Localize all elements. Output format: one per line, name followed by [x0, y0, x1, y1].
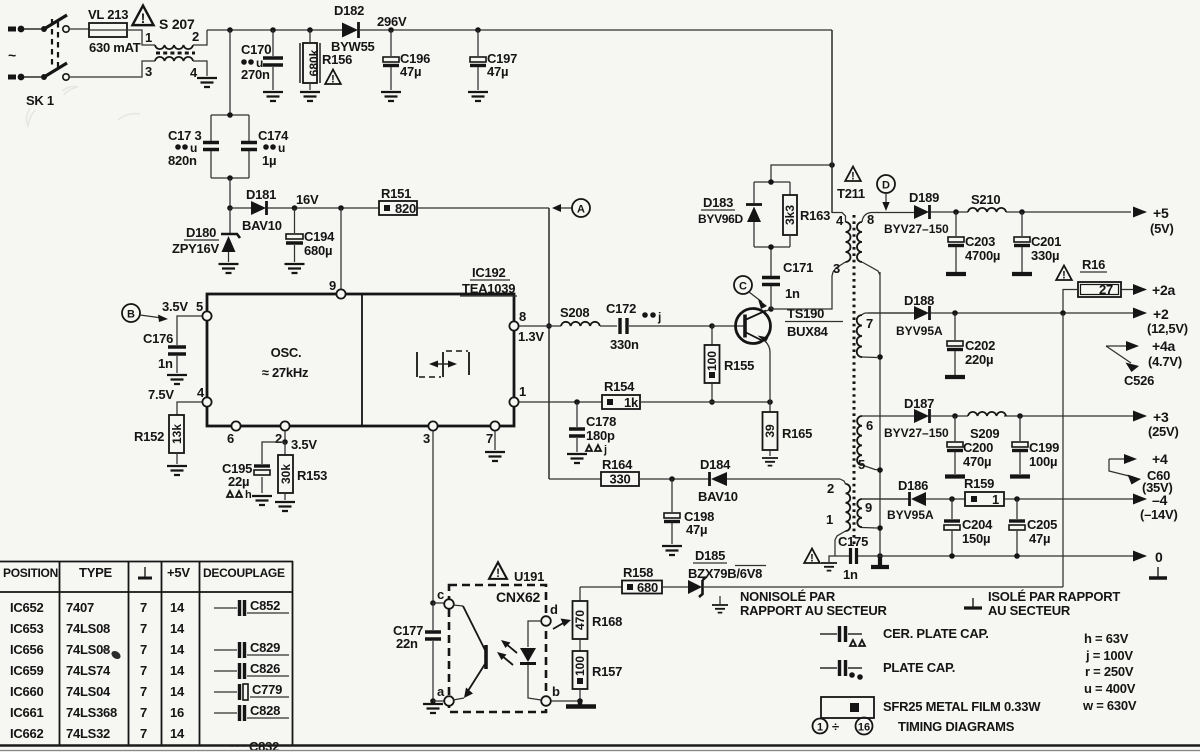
ground (nonisole) [712, 596, 728, 613]
svg-text:74LS74: 74LS74 [66, 663, 111, 678]
svg-text:BYV27–150: BYV27–150 [884, 426, 949, 440]
svg-text:TYPE: TYPE [79, 565, 113, 580]
isolated ground legend symbol [964, 598, 982, 608]
node junction 16V row left [227, 205, 233, 211]
pin 7 [486, 421, 500, 450]
svg-text:NONISOLÉ PAR: NONISOLÉ PAR [740, 589, 836, 604]
capacitor C204 [944, 499, 960, 556]
wire +2 row [868, 310, 1133, 316]
svg-text:D184: D184 [700, 457, 731, 472]
mains terminal L2 [8, 74, 24, 81]
svg-text:14: 14 [170, 663, 185, 678]
node junction S208 tap [546, 323, 552, 329]
pin 5 [196, 299, 212, 321]
svg-text:1.3V: 1.3V [518, 329, 544, 344]
svg-text:≈ 27kHz: ≈ 27kHz [262, 365, 309, 380]
resistor R154 [602, 395, 640, 410]
svg-text:1: 1 [817, 722, 823, 734]
svg-text:1n: 1n [785, 286, 800, 301]
svg-text:j = 100V: j = 100V [1085, 648, 1133, 663]
svg-text:3.5V: 3.5V [162, 299, 188, 314]
ground (C195) [252, 496, 272, 505]
svg-text:4: 4 [836, 213, 844, 228]
table row IC653 [10, 621, 185, 636]
capacitor C199 [1010, 416, 1030, 477]
svg-text:680: 680 [637, 580, 658, 595]
svg-text:PLATE CAP.: PLATE CAP. [883, 660, 955, 675]
output arrow +2 [1133, 306, 1188, 336]
svg-text:22n: 22n [396, 636, 418, 651]
label R16 [1080, 257, 1107, 272]
svg-text:(25V): (25V) [1148, 424, 1179, 439]
svg-text:IC659: IC659 [10, 663, 43, 678]
svg-text:2: 2 [275, 431, 282, 446]
svg-text:1n: 1n [843, 567, 858, 582]
svg-text:R159: R159 [964, 476, 994, 491]
svg-text:R16: R16 [1082, 257, 1105, 272]
svg-text:C201: C201 [1031, 234, 1061, 249]
svg-text:(4.7V): (4.7V) [1148, 354, 1182, 369]
svg-text:C200: C200 [963, 440, 993, 455]
svg-text:D188: D188 [904, 293, 934, 308]
inductor S209 [968, 412, 1006, 416]
capacitor C195 [254, 442, 285, 493]
T211 secondary winding 9 [857, 499, 909, 528]
svg-text:7: 7 [140, 642, 147, 657]
svg-text:R156: R156 [322, 52, 352, 67]
resistor R159 [965, 492, 1004, 507]
ground (C196) [381, 92, 401, 101]
svg-text:+2a: +2a [1152, 282, 1176, 298]
T211 core [853, 215, 856, 545]
svg-text:R164: R164 [602, 457, 633, 472]
node junction C198 [669, 476, 675, 482]
diode D184 [710, 472, 728, 486]
svg-text:6: 6 [866, 418, 873, 433]
table row IC659 [10, 663, 185, 678]
capacitor C201 [1012, 212, 1032, 274]
IC op U192 box [207, 294, 514, 426]
diode D187 [914, 409, 930, 423]
sfr25 legend symbol [821, 697, 874, 718]
svg-text:D187: D187 [904, 396, 934, 411]
wire fuse to S207 pin1 [127, 30, 155, 45]
svg-text:R157: R157 [592, 664, 622, 679]
node junction R155 top [709, 323, 715, 329]
ground (pin 7) [485, 452, 505, 461]
svg-text:h: h [245, 489, 252, 501]
pencil artifact near SK1 [26, 87, 140, 127]
opto pin c [437, 587, 454, 609]
capacitor C200 [945, 416, 965, 477]
svg-text:7: 7 [140, 684, 147, 699]
IC decoupling table frame [0, 561, 293, 745]
svg-text:D181: D181 [246, 187, 276, 202]
diode D188 [914, 306, 930, 320]
svg-text:7: 7 [140, 663, 147, 678]
svg-text:2: 2 [827, 481, 834, 496]
capacitor C172 [620, 318, 712, 334]
marking h (C195) [227, 489, 252, 501]
svg-text:47µ: 47µ [400, 64, 421, 79]
svg-text:IC662: IC662 [10, 726, 43, 741]
warning triangle (primary gnd) [804, 549, 820, 565]
capacitor C198 [664, 479, 680, 544]
modulator symbol [417, 351, 469, 377]
node junction emitter [767, 399, 773, 405]
marking u (C173) [175, 141, 197, 155]
label IC192 [470, 265, 510, 280]
svg-text:+4a: +4a [1152, 338, 1176, 354]
svg-text:C194: C194 [304, 229, 335, 244]
svg-text:820: 820 [395, 201, 416, 216]
ground (C176) [167, 375, 187, 384]
svg-text:u: u [278, 141, 285, 155]
T211 secondary winding 6-5 [857, 416, 905, 470]
svg-text:14: 14 [170, 642, 185, 657]
svg-text:h = 63V: h = 63V [1084, 631, 1129, 646]
svg-text:B: B [127, 309, 135, 321]
svg-text:7: 7 [140, 621, 147, 636]
svg-text:7: 7 [140, 726, 147, 741]
diode D182 [342, 22, 359, 38]
output arrow +5 [1133, 205, 1174, 236]
svg-text:74LS08: 74LS08 [66, 621, 110, 636]
switch SK1 [41, 15, 69, 80]
wire secondary common rail [877, 272, 883, 559]
capacitor C177 [425, 603, 441, 701]
svg-text:3: 3 [833, 261, 840, 276]
svg-text:R154: R154 [604, 379, 635, 394]
wire branch down to C173/C174 [229, 30, 231, 115]
svg-text:CER. PLATE CAP.: CER. PLATE CAP. [883, 626, 989, 641]
svg-text:IC653: IC653 [10, 621, 43, 636]
zener D185 [688, 577, 706, 597]
svg-text:1n: 1n [158, 356, 173, 371]
resistor R155 [705, 326, 720, 402]
svg-text:IC660: IC660 [10, 684, 43, 699]
svg-text:330: 330 [610, 472, 631, 487]
svg-text:OSC.: OSC. [271, 345, 302, 360]
ground (D180) [219, 264, 239, 273]
svg-text:470µ: 470µ [963, 454, 991, 469]
svg-text:C779: C779 [252, 682, 282, 697]
label TS190 [785, 306, 843, 322]
capacitor C171 [762, 249, 780, 309]
svg-text:d: d [550, 602, 558, 617]
decoupling cap C826 [214, 661, 289, 679]
svg-text:BZX79B/6V8: BZX79B/6V8 [688, 566, 762, 581]
svg-text:7: 7 [140, 705, 147, 720]
wire +3 row [905, 413, 1133, 419]
wire D181 to R151 [268, 207, 379, 209]
svg-text:330n: 330n [610, 337, 639, 352]
resistor R151 [379, 201, 417, 216]
svg-text:7.5V: 7.5V [148, 387, 174, 402]
capacitor C170 [263, 30, 283, 90]
optocoupler U191 CNX62 dashed box [449, 585, 546, 712]
bottom page border [0, 746, 1200, 751]
wire pin5 to C176 [177, 316, 202, 345]
svg-text:BYV27–150: BYV27–150 [884, 222, 949, 236]
voltage code legend [1082, 631, 1137, 713]
table row IC661 [10, 705, 184, 720]
T211 secondary winding 8 [857, 213, 914, 276]
svg-text:DECOUPLAGE: DECOUPLAGE [203, 566, 285, 580]
svg-text:7: 7 [140, 600, 147, 615]
svg-text:220µ: 220µ [965, 352, 993, 367]
svg-text:C828: C828 [250, 703, 280, 718]
svg-text:+5V: +5V [167, 565, 190, 580]
svg-text:1: 1 [992, 492, 999, 507]
label D185 [693, 548, 727, 563]
node D [877, 175, 895, 211]
svg-text:POSITION: POSITION [3, 566, 58, 580]
svg-text:4700µ: 4700µ [965, 248, 1000, 263]
svg-text:D183: D183 [703, 195, 733, 210]
svg-text:BAV10: BAV10 [698, 489, 738, 504]
wire pin4 to R152 [177, 402, 202, 415]
svg-text:1: 1 [519, 384, 526, 399]
svg-text:c: c [437, 587, 444, 602]
warning triangle (fuse) [132, 6, 153, 27]
svg-text:C170: C170 [241, 42, 271, 57]
opto phototransistor [453, 605, 486, 700]
svg-text:T211: T211 [837, 186, 865, 201]
opto pin a [437, 684, 454, 706]
svg-text:C176: C176 [143, 331, 173, 346]
svg-text:IC656: IC656 [10, 642, 43, 657]
svg-text:14: 14 [170, 726, 185, 741]
opto pin d [541, 602, 558, 626]
svg-text:C199: C199 [1029, 440, 1059, 455]
resistor R168 [573, 587, 588, 651]
annotation +4a / C526 [1106, 338, 1182, 388]
transformer S207 secondary winding pins 3-4 [69, 57, 207, 77]
wire switch to fuse [69, 28, 89, 30]
capacitor C173 [203, 143, 219, 150]
svg-text:TEA1039: TEA1039 [462, 281, 515, 296]
svg-text:ZPY16V: ZPY16V [172, 241, 219, 256]
wire opto b to R157 bottom [551, 698, 583, 704]
label TEA1039 [460, 281, 517, 296]
svg-text:180p: 180p [586, 428, 615, 443]
transformer S207 primary winding pins 1-2 [155, 30, 207, 49]
svg-text:14: 14 [170, 621, 185, 636]
svg-text:SFR25 METAL FILM 0.33W: SFR25 METAL FILM 0.33W [883, 699, 1041, 714]
ground (C170) [263, 92, 283, 101]
svg-text:~: ~ [8, 47, 16, 63]
marking j (C172) [642, 310, 661, 324]
svg-text:27: 27 [1099, 282, 1113, 297]
wire R158 to D185 [662, 586, 688, 588]
svg-text:16: 16 [170, 705, 184, 720]
svg-text:270n: 270n [241, 67, 270, 82]
warning triangle (T211) [845, 167, 861, 183]
svg-text:1µ: 1µ [262, 153, 276, 168]
opto pin b [541, 684, 560, 706]
svg-text:14: 14 [170, 600, 185, 615]
svg-text:3: 3 [145, 64, 152, 79]
svg-text:r = 250V: r = 250V [1085, 664, 1134, 679]
svg-text:BYW55: BYW55 [331, 39, 375, 54]
isolated ground (0 output) [1149, 567, 1167, 578]
output arrow +3 [1133, 409, 1179, 439]
plate cap legend symbol [820, 660, 863, 680]
svg-text:150µ: 150µ [962, 531, 990, 546]
svg-text:(–14V): (–14V) [1140, 507, 1178, 522]
svg-text:D189: D189 [909, 190, 939, 205]
svg-text:630 mAT: 630 mAT [89, 40, 141, 55]
svg-text:w = 630V: w = 630V [1082, 698, 1137, 713]
svg-text:(12,5V): (12,5V) [1147, 321, 1188, 336]
svg-text:D: D [882, 180, 890, 192]
T211 secondary winding 7 [857, 313, 914, 358]
resistor R16 [1063, 282, 1133, 313]
wire R168 top to R158 [580, 586, 622, 588]
pin 3 [423, 421, 438, 603]
svg-text:1: 1 [145, 30, 152, 45]
svg-text:R151: R151 [381, 186, 411, 201]
resistor R157 [573, 651, 588, 701]
svg-text:C: C [739, 281, 747, 293]
resistor R152 [169, 415, 184, 464]
timing diagrams legend [813, 718, 1015, 735]
svg-text:74LS04: 74LS04 [66, 684, 111, 699]
capacitor C175 [835, 548, 880, 564]
svg-text:5: 5 [196, 299, 203, 314]
node A [552, 199, 590, 217]
svg-text:TS190: TS190 [787, 306, 824, 321]
wire R151 to node A corner [417, 207, 549, 209]
svg-text:RAPPORT AU SECTEUR: RAPPORT AU SECTEUR [740, 603, 888, 618]
inductor S210 [968, 208, 1006, 212]
svg-text:9: 9 [865, 500, 872, 515]
decoupling cap C779 [214, 682, 289, 700]
svg-text:3: 3 [423, 431, 430, 446]
svg-text:4: 4 [190, 65, 198, 80]
wire to opto pin c [433, 603, 449, 604]
warning triangle (R16) [1056, 266, 1072, 282]
table row IC652 [10, 600, 185, 615]
svg-text:C829: C829 [250, 640, 280, 655]
resistor R165 [763, 402, 778, 456]
ground (C198) [662, 546, 682, 555]
svg-text:39: 39 [763, 424, 777, 438]
svg-text:680µ: 680µ [304, 243, 332, 258]
svg-text:8: 8 [867, 212, 874, 227]
diode D181 [251, 201, 267, 215]
svg-text:16V: 16V [296, 192, 319, 207]
transistor TS190 BUX84 [736, 309, 772, 403]
svg-text:+4: +4 [1152, 451, 1168, 467]
wire 296V rail [360, 29, 832, 31]
svg-text:9: 9 [329, 278, 336, 293]
svg-text:330µ: 330µ [1031, 248, 1059, 263]
svg-text:47µ: 47µ [487, 64, 508, 79]
svg-text:R165: R165 [782, 426, 812, 441]
svg-text:74LS368: 74LS368 [66, 705, 117, 720]
wire R154 to emitter [640, 401, 770, 403]
warning triangle (R156) [325, 70, 341, 86]
ink smudge artifact [102, 649, 122, 660]
capacitor C194 [286, 208, 303, 262]
svg-text:3.5V: 3.5V [291, 437, 317, 452]
pin 1 [509, 384, 602, 407]
wire to opto pin a [433, 700, 444, 702]
svg-text:1k: 1k [624, 395, 639, 410]
wire A line vertical [548, 208, 550, 479]
svg-text:C852: C852 [250, 598, 280, 613]
svg-text:6: 6 [227, 431, 234, 446]
table row IC656 [10, 642, 185, 657]
pin 8 [509, 309, 549, 331]
node junction C178 [574, 399, 580, 405]
label D180 [184, 225, 219, 240]
label D183 [701, 195, 735, 210]
svg-text:BUX84: BUX84 [787, 324, 829, 339]
diode D189 [914, 205, 930, 219]
svg-text:74LS32: 74LS32 [66, 726, 110, 741]
svg-text:!: ! [496, 568, 500, 580]
node junction at C196 [388, 27, 394, 33]
label BZX79B/6V8 [688, 566, 766, 582]
svg-text:8: 8 [519, 309, 526, 324]
node junction at R156 [307, 27, 313, 33]
svg-text:R163: R163 [800, 208, 830, 223]
svg-text:R153: R153 [297, 468, 327, 483]
capacitor C176 [168, 347, 186, 373]
node B [122, 304, 168, 322]
marking j (C178) [586, 444, 607, 456]
0V terminal bar (R157) [566, 701, 596, 707]
svg-text:820n: 820n [168, 153, 197, 168]
svg-text:S 207: S 207 [159, 16, 195, 32]
node junction pin9 branch [338, 205, 344, 211]
svg-text:IC652: IC652 [10, 600, 43, 615]
svg-text:47µ: 47µ [686, 522, 707, 537]
svg-text:C171: C171 [783, 260, 813, 275]
output arrow 0 [1133, 549, 1163, 565]
node C [734, 276, 767, 309]
svg-text:BYV95A: BYV95A [887, 508, 934, 522]
resistor R164 [601, 472, 639, 487]
svg-text:100: 100 [573, 656, 587, 676]
output arrow +2a [1133, 282, 1176, 298]
light arrows [497, 640, 517, 665]
svg-text:C172: C172 [606, 301, 636, 316]
svg-text:SK 1: SK 1 [26, 93, 54, 108]
capacitor C174 [241, 143, 257, 150]
svg-text:22µ: 22µ [228, 474, 249, 489]
ground (R152) [167, 466, 187, 475]
wire to D181 [230, 207, 251, 209]
svg-text:C178: C178 [586, 414, 616, 429]
wire 0 rail [880, 553, 1133, 559]
wire -4 row [861, 496, 1133, 502]
ground (R165) [762, 458, 778, 466]
svg-text:30k: 30k [279, 464, 293, 484]
snubber frame wires [754, 162, 835, 250]
svg-text:+5: +5 [1153, 205, 1169, 221]
wire R164 to D184 [639, 478, 709, 480]
svg-text:(5V): (5V) [1150, 221, 1174, 236]
node junction opto a branch [430, 698, 436, 704]
decoupling cap C828 [214, 703, 289, 721]
T211 primary winding 4-3 [771, 213, 851, 310]
svg-text:3k3: 3k3 [783, 205, 797, 225]
ground (S207 pin 4) [197, 78, 217, 87]
